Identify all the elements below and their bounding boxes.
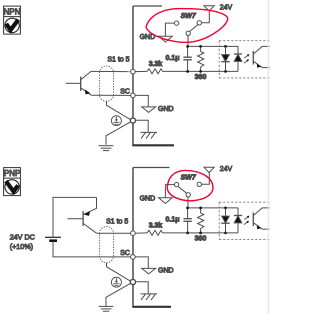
- svg-text:24V DC: 24V DC: [10, 233, 35, 242]
- terminal S1 to 5: [131, 69, 136, 74]
- internal GND wire from SC terminal: [135, 95, 148, 107]
- svg-text:3.3k: 3.3k: [149, 61, 163, 68]
- shield wire to terminal: [107, 101, 131, 119]
- protective earth icon: [111, 116, 121, 126]
- transistor Q1 (NPN) base lead: [66, 82, 81, 84]
- resistor 3.3k zigzag (bottom): [147, 230, 163, 235]
- resistor 360 zigzag: [198, 52, 204, 68]
- PNP lever icon: [5, 180, 19, 194]
- cable dashed ellipse: [99, 66, 113, 101]
- svg-text:24V: 24V: [220, 166, 233, 173]
- chassis ground symbol (bottom): [141, 294, 158, 300]
- resistor 360 stubs: [200, 46, 202, 71]
- svg-text:PNP: PNP: [4, 169, 20, 178]
- battery negative wire to SC: [53, 241, 131, 257]
- wire terminal to earth ground: [106, 122, 131, 145]
- cable dashed ellipse (bottom): [99, 227, 113, 263]
- phototransistor base bar: [252, 51, 254, 65]
- internal GND wire from SC terminal (bottom): [135, 257, 148, 269]
- capacitor plates: [183, 57, 191, 60]
- junction dots: [186, 45, 227, 73]
- terminal block bar (bottom circuit): [132, 168, 171, 307]
- wire terminal to chassis ground (bottom): [136, 282, 149, 294]
- svg-text:NPN: NPN: [4, 7, 21, 16]
- switch SW7 wire to 24V: [202, 11, 210, 23]
- transistor Q1 emitter with arrow: [81, 88, 92, 96]
- switch SW7 wire to 24V (bottom): [202, 173, 210, 185]
- svg-text:GND: GND: [140, 34, 156, 41]
- transistor Q2 base bar: [82, 211, 84, 226]
- battery 24V DC positive rail: [53, 197, 97, 236]
- terminal shield (bottom): [130, 279, 135, 284]
- diode D3 (down, bottom): [221, 208, 229, 233]
- capacitor plates (bottom): [183, 219, 191, 222]
- phototransistor base bar (bottom): [252, 212, 254, 226]
- 24V triangle (bottom): [204, 167, 214, 172]
- diode D4 (up, LED, bottom): [234, 208, 242, 233]
- switch SW7 wire to GND (bottom): [165, 185, 174, 198]
- transistor Q1 collector: [81, 71, 91, 79]
- svg-text:SW7: SW7: [181, 174, 197, 181]
- terminal SC (bottom): [131, 255, 136, 260]
- diode D1 (down): [221, 46, 229, 71]
- earth ground symbol: [99, 146, 114, 151]
- phototransistor collector: [254, 46, 270, 54]
- light arrows: [244, 54, 250, 63]
- svg-text:360: 360: [195, 236, 207, 243]
- shield wire to terminal (bottom): [107, 263, 131, 281]
- top rail (bottom circuit): [188, 207, 238, 209]
- phototransistor emitter with arrow (bottom): [254, 223, 270, 229]
- svg-text:GND: GND: [158, 267, 174, 274]
- switch SW7 common contact (bottom): [186, 193, 190, 197]
- optocoupler dashed box: [219, 41, 270, 78]
- diode D2 (up, LED): [234, 46, 242, 71]
- terminal S1 to 5 (bottom): [131, 231, 136, 236]
- wire terminal to earth ground (bottom): [106, 283, 131, 306]
- lower rail (bottom circuit): [135, 232, 238, 234]
- svg-text:3.3k: 3.3k: [149, 223, 163, 230]
- capacitor C (0.1u) top stub: [187, 46, 189, 57]
- PNP label box: [4, 168, 21, 196]
- transistor Q1 base bar: [80, 77, 82, 91]
- faint page edge line: [267, 0, 269, 314]
- chassis ground symbol: [141, 132, 158, 138]
- 24V triangle: [204, 6, 214, 11]
- svg-text:SC: SC: [120, 250, 130, 257]
- switch SW7 right contact: [197, 21, 201, 25]
- svg-text:S1 to 5: S1 to 5: [106, 219, 128, 226]
- earth ground symbol (bottom): [99, 306, 114, 311]
- switch SW7 wire to GND: [165, 23, 174, 36]
- GND triangle (switch): [159, 36, 173, 42]
- resistor 3.3k zigzag: [147, 69, 163, 74]
- svg-text:SC: SC: [120, 89, 130, 96]
- svg-text:SW7: SW7: [181, 13, 197, 20]
- optocoupler dashed box (bottom): [219, 202, 270, 239]
- terminal block bar (top circuit): [132, 6, 174, 145]
- switch SW7 common stem (bottom): [187, 197, 189, 208]
- wire terminal to chassis ground: [136, 120, 149, 132]
- switch SW7 lever (thrown right): [190, 25, 198, 32]
- junction dots (bottom): [186, 207, 227, 235]
- switch SW7 left contact (bottom): [174, 182, 178, 186]
- switch SW7 left contact: [174, 21, 178, 25]
- NPN label box: [4, 6, 21, 34]
- top rail: [188, 45, 238, 47]
- svg-text:(+10%): (+10%): [10, 242, 33, 251]
- terminal SC: [131, 93, 136, 98]
- switch SW7 right contact (bottom): [197, 182, 201, 186]
- transistor Q2 (PNP) base lead: [67, 218, 83, 220]
- svg-text:0.1μ: 0.1μ: [165, 217, 179, 224]
- phototransistor collector (bottom): [254, 208, 270, 216]
- resistor 360 stubs (bottom): [200, 208, 202, 233]
- internal GND triangle (bottom): [142, 268, 156, 274]
- terminal shield: [130, 118, 135, 123]
- wire S1 to 5 (bottom): [97, 232, 131, 234]
- light arrows (bottom): [244, 216, 250, 225]
- capacitor top stub (bottom): [187, 208, 189, 219]
- svg-text:GND: GND: [140, 196, 156, 203]
- capacitor bottom stub (bottom): [187, 222, 189, 233]
- lower rail (S1to5 through RC to opto): [135, 70, 238, 72]
- svg-text:GND: GND: [158, 106, 174, 113]
- wire SC (emitter to terminal): [92, 94, 131, 96]
- svg-text:S1 to 5: S1 to 5: [107, 56, 129, 63]
- red annotation ellipse (top): [146, 9, 228, 43]
- wire S1 to 5 (collector to terminal): [91, 70, 131, 72]
- NPN lever icon: [5, 18, 19, 32]
- phototransistor emitter with arrow: [254, 61, 270, 67]
- transistor Q2 collector: [83, 224, 96, 234]
- internal GND triangle: [142, 107, 156, 113]
- transistor Q2 emitter with arrow (to 24V rail): [83, 197, 96, 216]
- svg-text:0.1μ: 0.1μ: [165, 55, 179, 62]
- GND triangle (switch, bottom): [159, 198, 173, 204]
- resistor 360 zigzag (bottom): [198, 213, 204, 229]
- capacitor bottom stub: [187, 60, 189, 71]
- switch SW7 common contact: [186, 31, 190, 35]
- switch SW7 lever (thrown left, bottom): [178, 187, 186, 194]
- protective earth icon (bottom): [111, 277, 121, 287]
- red annotation ellipse (bottom): [167, 170, 213, 200]
- switch SW7 common stem: [187, 36, 189, 47]
- svg-text:24V: 24V: [220, 5, 233, 12]
- svg-text:360: 360: [195, 74, 207, 81]
- battery plates: [45, 237, 61, 240]
